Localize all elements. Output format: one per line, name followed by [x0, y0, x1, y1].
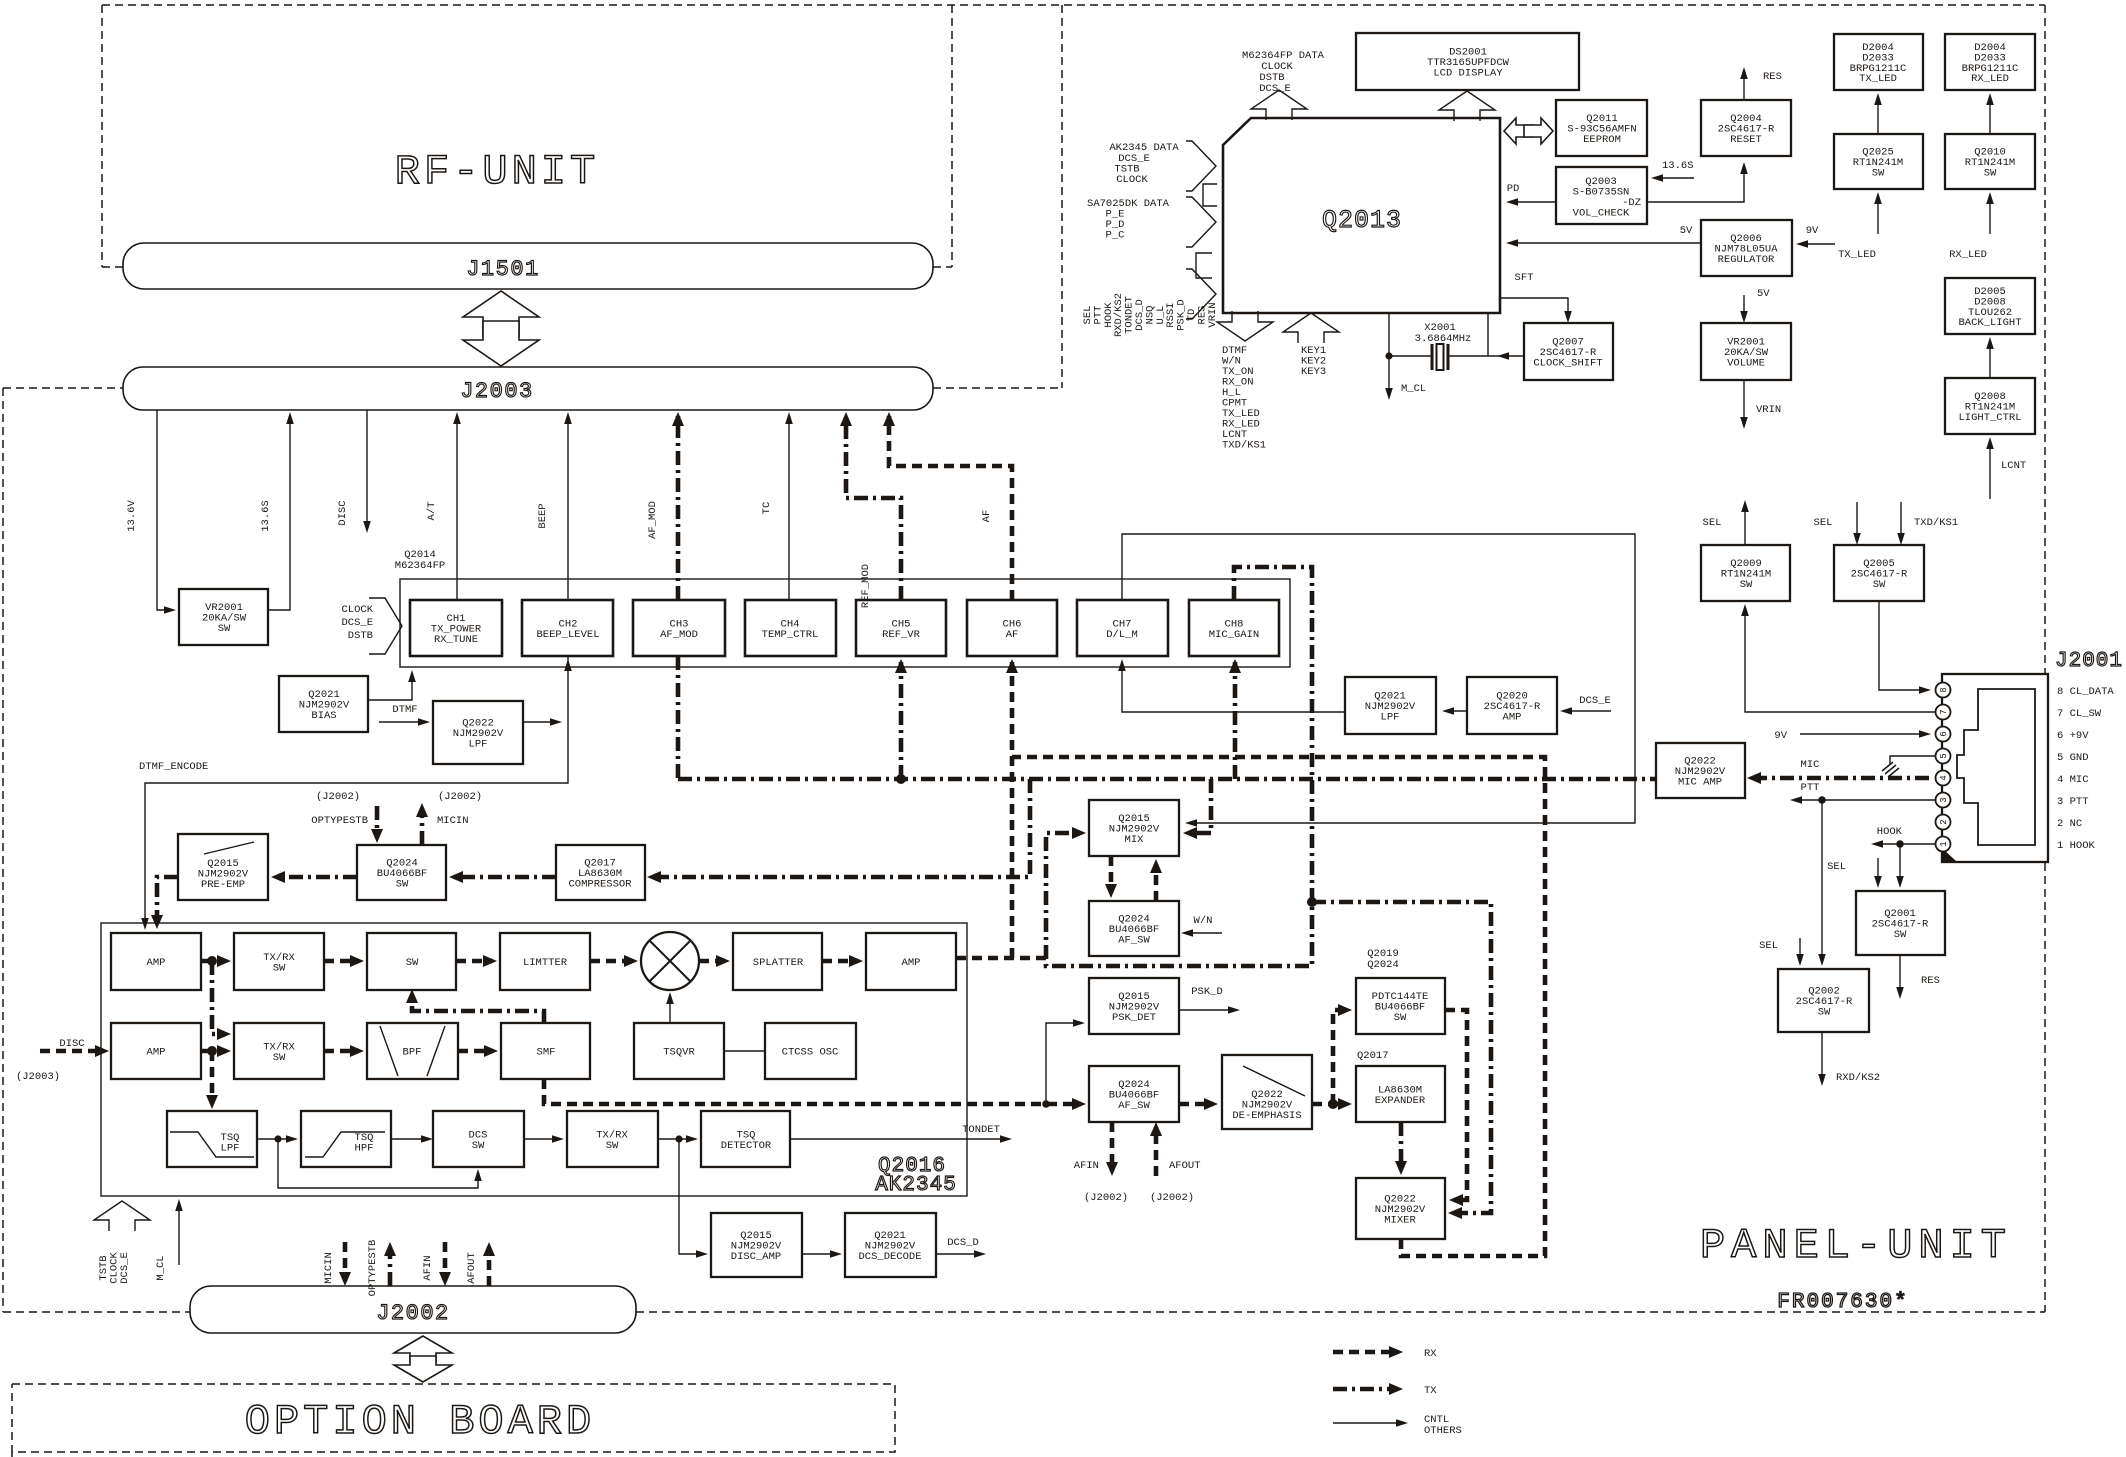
filter TSQ LPF [167, 1111, 257, 1167]
wire DEEMPH to LA8630 [1312, 1102, 1347, 1107]
svg-text:PRE-EMP: PRE-EMP [201, 879, 245, 891]
pin 1 J2001 [1936, 837, 1951, 852]
svg-text:SMF: SMF [537, 1047, 556, 1059]
filter SMF [501, 1023, 590, 1079]
svg-text:SEL: SEL [1759, 940, 1778, 952]
svg-text:SW: SW [1394, 1012, 1407, 1024]
svg-text:DCS_E: DCS_E [1579, 695, 1611, 707]
pin 6 J2001 [1936, 727, 1951, 742]
svg-text:Q2017: Q2017 [1357, 1050, 1389, 1062]
svg-text:DCS_D: DCS_D [947, 1237, 979, 1249]
chevron SA7025DK DATA [1186, 197, 1216, 247]
svg-text:SW: SW [472, 1140, 485, 1152]
svg-text:BEEP: BEEP [537, 503, 549, 528]
switch SW row1 [367, 933, 456, 990]
svg-text:7 CL_SW: 7 CL_SW [2057, 708, 2102, 720]
wire AFSW to MIX [1154, 864, 1159, 901]
wire BEEP [567, 415, 569, 600]
svg-text:5 GND: 5 GND [2057, 752, 2089, 764]
CPU Q2013 [1223, 118, 1500, 313]
svg-text:13.6S: 13.6S [260, 500, 272, 532]
svg-text:RX_TUNE: RX_TUNE [434, 634, 478, 646]
wire OPTYPESTB J2002 [388, 1247, 393, 1286]
switch Q2024 AF_SW 2 [1089, 1066, 1179, 1122]
double block arrow J1501-J2003 [463, 291, 539, 366]
svg-text:5V: 5V [1757, 288, 1770, 300]
wire PTT [1793, 799, 1935, 801]
svg-text:M62364FP: M62364FP [395, 560, 445, 572]
wire 9V to Q2006 [1799, 243, 1835, 245]
switch DCS SW [433, 1111, 524, 1167]
svg-text:TX: TX [1424, 1385, 1437, 1397]
svg-text:SEL: SEL [1827, 861, 1846, 873]
wire LPF out to CH2 node [523, 721, 559, 723]
svg-text:9V: 9V [1774, 730, 1787, 742]
svg-text:MICIN: MICIN [323, 1252, 335, 1284]
svg-text:RF-UNIT: RF-UNIT [395, 148, 599, 196]
svg-text:MIC: MIC [1801, 759, 1820, 771]
bracket pins 2 [1196, 253, 1212, 278]
svg-text:RX_LED: RX_LED [1949, 249, 1987, 261]
filter TSQ HPF [301, 1111, 391, 1167]
svg-text:BACK_LIGHT: BACK_LIGHT [1958, 317, 2021, 329]
RF-UNIT border bottom [102, 266, 952, 268]
svg-text:D/L_M: D/L_M [1106, 629, 1138, 641]
wire MIC from J2001 [1752, 776, 1929, 781]
wire 13.6S [268, 415, 290, 610]
wire SFT [1500, 298, 1568, 320]
EEPROM Q2011 [1556, 100, 1647, 156]
wire Q2008 to backlight [1989, 340, 1991, 378]
pin 3 J2001 [1936, 793, 1951, 808]
wire TXRX3-TSQDET [658, 1138, 695, 1140]
DA CH8 MIC_GAIN [1189, 600, 1279, 656]
svg-text:LCNT: LCNT [2001, 460, 2026, 472]
DA CH1 TX_POWER [410, 600, 502, 656]
wire TX branch row1 to row2 [212, 961, 226, 1034]
svg-text:J2003: J2003 [460, 379, 534, 404]
svg-text:TX_LED: TX_LED [1859, 73, 1897, 85]
svg-text:PSK_DET: PSK_DET [1112, 1012, 1156, 1024]
wire TXRX2-BPF [324, 1049, 359, 1054]
svg-text:VRIN: VRIN [1207, 302, 1219, 327]
wire SPLATTER-AMP [822, 959, 858, 964]
ground pin5 [1882, 756, 1935, 777]
decoder TSQVR [634, 1023, 724, 1079]
wire PSK_D [1179, 1009, 1237, 1011]
svg-text:6 +9V: 6 +9V [2057, 730, 2089, 742]
svg-text:HPF: HPF [355, 1143, 374, 1155]
svg-text:P_C: P_C [1106, 230, 1125, 242]
wire 13.6S to Q2003 [1654, 177, 1694, 179]
svg-text:FR007630*: FR007630* [1777, 1291, 1908, 1314]
amp AMP row1 out [866, 933, 956, 990]
svg-text:SW: SW [273, 1052, 286, 1064]
svg-text:RX: RX [1424, 1348, 1437, 1360]
op-amp Q2022 LPF dtmf [433, 701, 523, 764]
op-amp Q2015 PSK_DET [1089, 978, 1179, 1034]
wire RX_LED in [1989, 195, 1991, 234]
svg-text:(J2002): (J2002) [1150, 1192, 1194, 1204]
wire TSQVR-CTCSS [724, 1050, 765, 1052]
compressor Q2017 [556, 845, 645, 900]
svg-text:OPTION BOARD: OPTION BOARD [245, 1398, 595, 1446]
svg-text:EXPANDER: EXPANDER [1375, 1095, 1426, 1107]
svg-text:LIGHT_CTRL: LIGHT_CTRL [1958, 412, 2021, 424]
svg-text:AF_SW: AF_SW [1118, 935, 1150, 947]
wire DTMF [379, 721, 427, 723]
wire A/T [456, 415, 458, 600]
transistor Q2009 SW [1701, 545, 1790, 601]
svg-text:DSTB: DSTB [348, 630, 373, 642]
svg-text:AF: AF [1006, 629, 1019, 641]
svg-text:DISC_AMP: DISC_AMP [731, 1251, 781, 1263]
connector J2001 [1942, 650, 2123, 862]
wire AMP up to CH6 [1010, 662, 1015, 958]
svg-text:DCS_E: DCS_E [341, 617, 373, 629]
wire TXD/KS1 q2005 [1900, 502, 1902, 542]
svg-text:COMPRESSOR: COMPRESSOR [568, 879, 632, 891]
double block arrow J2002-OPTION [394, 1336, 452, 1382]
chevron AK2345 DATA [1186, 141, 1216, 191]
transistor Q2005 SW [1834, 545, 1924, 601]
pin 4 J2001 [1936, 771, 1951, 786]
svg-text:LPF: LPF [1381, 712, 1400, 724]
svg-text:TC: TC [761, 502, 773, 515]
wire TX to MIX right [1188, 779, 1211, 833]
wire TSQVR to mixer [669, 995, 671, 1023]
wire BIAS to Q2014 [368, 673, 412, 700]
svg-text:W/N: W/N [1194, 915, 1213, 927]
DA CH4 TEMP_CTRL [745, 600, 836, 656]
svg-text:AMP: AMP [147, 1047, 166, 1059]
block arrow KEY group [1283, 313, 1339, 343]
transistor Q2001 SW [1856, 891, 1945, 955]
svg-text:PSK_D: PSK_D [1191, 986, 1223, 998]
svg-text:AF_SW: AF_SW [1118, 1100, 1150, 1112]
amp AMP row2 [111, 1023, 201, 1079]
DA CH5 REF_VR [856, 600, 946, 656]
wire AFOUT J2002 [487, 1247, 492, 1286]
wire SMF to AFSW2 [544, 1079, 1081, 1104]
RF-UNIT border left [101, 5, 103, 267]
wire SMF up to SW [412, 993, 544, 1023]
svg-text:4: 4 [1939, 775, 1949, 780]
wire DISC into AMP2 [40, 1049, 104, 1054]
svg-text:CLOCK_SHIFT: CLOCK_SHIFT [1533, 358, 1602, 370]
svg-text:M_CL: M_CL [155, 1255, 167, 1280]
svg-text:(J2002): (J2002) [316, 791, 360, 803]
svg-text:6: 6 [1939, 731, 1949, 736]
wire AFOUT [1154, 1127, 1159, 1176]
wire TXRX1-SW [324, 959, 359, 964]
svg-text:DCS_E: DCS_E [1259, 83, 1291, 95]
op-amp Q2015 DISC_AMP [711, 1213, 802, 1277]
wire SEL q2009 [1744, 503, 1746, 545]
wire 5V to Q2013 [1509, 242, 1701, 244]
expander LA8630M [1356, 1066, 1445, 1122]
PANEL-UNIT border right [2044, 5, 2046, 1312]
block arrow to M62364FP DATA [1251, 90, 1307, 120]
transistor Q2010 SW [1945, 134, 2035, 189]
svg-text:S-B0735SN: S-B0735SN [1573, 187, 1630, 199]
svg-text:2 NC: 2 NC [2057, 818, 2082, 830]
svg-text:5: 5 [1939, 753, 1949, 758]
wire MIC_GAIN loop [1046, 567, 1312, 966]
wire MICIN J2002 [343, 1242, 348, 1281]
svg-text:VOLUME: VOLUME [1727, 358, 1765, 370]
svg-text:RX_LED: RX_LED [1971, 73, 2009, 85]
wire AFSW2 to DEEMPH [1179, 1102, 1213, 1107]
wire Q2021LPF to CH7 [1122, 662, 1345, 712]
op-amp Q2015 PRE-EMP [178, 834, 268, 900]
svg-text:DCS_DECODE: DCS_DECODE [858, 1251, 921, 1263]
transistor Q2007 CLOCK_SHIFT [1524, 323, 1613, 380]
amp Q2020 [1467, 677, 1557, 734]
wire SEL q2005 [1856, 502, 1858, 542]
legend RX line [1333, 1350, 1397, 1355]
wire to DCS SW bottom [278, 1139, 478, 1188]
wire TC [788, 415, 790, 600]
transistor Q2004 RESET [1701, 100, 1791, 156]
svg-text:SW: SW [1872, 168, 1885, 180]
svg-text:M_CL: M_CL [1401, 383, 1426, 395]
wire TONDET [790, 1138, 1009, 1140]
wire PRE-EMP chain COMP-Q2024 [454, 875, 556, 880]
wire Q2003 to Q2004 [1647, 165, 1744, 202]
svg-text:AFOUT: AFOUT [1169, 1160, 1201, 1172]
DA CH6 AF [967, 600, 1057, 656]
svg-text:AMP: AMP [902, 957, 921, 969]
switch Q2024 AF_SW 1 [1089, 901, 1179, 956]
wire W/N [1184, 932, 1222, 934]
IC Q2003 VOL_CHECK [1556, 167, 1647, 224]
wire VRIN [1743, 380, 1745, 426]
svg-text:RESET: RESET [1730, 134, 1762, 146]
wire RX return long [1012, 757, 1545, 1256]
svg-text:CLOCK: CLOCK [341, 604, 373, 616]
svg-text:SW: SW [1894, 929, 1907, 941]
svg-text:RES: RES [1921, 975, 1940, 987]
block arrow CLOCK-DCS_E-DSTB [369, 598, 402, 654]
switch TX/RX SW row3 [567, 1111, 658, 1167]
oscillator CTCSS OSC [765, 1023, 856, 1079]
op-amp Q2021 DCS_DECODE [845, 1213, 936, 1277]
wire Q2010 to RX LED [1989, 96, 1991, 134]
wire PD [1509, 201, 1556, 203]
wire Q2020-Q2021 [1445, 710, 1467, 712]
potentiometer VR2001 VOLUME [1701, 323, 1791, 380]
svg-text:LIMTTER: LIMTTER [523, 957, 568, 969]
wire Q2001 RES [1899, 955, 1901, 996]
PANEL-UNIT border bottom [3, 1311, 2045, 1313]
svg-text:CTCSS OSC: CTCSS OSC [782, 1047, 839, 1059]
svg-text:SW: SW [1818, 1007, 1831, 1019]
chevron status signals [1186, 269, 1216, 319]
pin 2 J2001 [1936, 815, 1951, 830]
wire LIMTTER-mixer [590, 959, 633, 964]
svg-text:PD: PD [1507, 183, 1520, 195]
op-amp Q2021 BIAS [279, 676, 368, 732]
LED D2004 TX_LED [1834, 34, 1923, 90]
svg-text:TX_LED: TX_LED [1838, 249, 1876, 261]
svg-text:MIXER: MIXER [1384, 1215, 1416, 1227]
splatter SPLATTER [733, 933, 822, 990]
regulator Q2006 [1701, 220, 1792, 276]
svg-text:TXD/KS1: TXD/KS1 [1222, 440, 1266, 452]
svg-text:OPTYPESTB: OPTYPESTB [367, 1240, 379, 1297]
double block arrow Q2013-Q2011 [1504, 118, 1553, 144]
block arrow DTMF group [1217, 311, 1273, 341]
wire SEL to Q2002 [1799, 938, 1801, 963]
svg-text:DISC: DISC [59, 1038, 84, 1050]
wire pin7 to Q2009 [1745, 607, 1935, 712]
svg-text:SPLATTER: SPLATTER [753, 957, 804, 969]
wire TX to MIXER [1312, 902, 1491, 1213]
svg-text:A/T: A/T [426, 502, 438, 521]
wire AFIN [1110, 1122, 1115, 1171]
wire BPF-SMF [458, 1049, 493, 1054]
svg-text:OPTYPESTB: OPTYPESTB [311, 815, 368, 827]
op-amp Q2021 LPF [1345, 677, 1436, 734]
svg-text:AK2345: AK2345 [875, 1174, 957, 1197]
transistor Q2002 SW [1778, 969, 1869, 1032]
connector J1501 [123, 243, 933, 289]
wire AMP2 down to TSQ LPF [210, 1051, 215, 1104]
pin 5 J2001 [1936, 749, 1951, 764]
border top dashed [102, 4, 2045, 6]
block arrow to DS2001 [1439, 91, 1495, 121]
connector J2002 [190, 1286, 636, 1333]
wire AFIN J2002 [443, 1242, 448, 1281]
pin 7 J2001 [1936, 705, 1951, 720]
wire TX_LED in [1877, 195, 1879, 234]
svg-text:13.6S: 13.6S [1662, 160, 1694, 172]
wire mixer-SPLATTER [699, 959, 725, 964]
svg-text:RES: RES [1763, 71, 1782, 83]
LED D2005 BACK_LIGHT [1945, 278, 2035, 334]
PANEL-UNIT border left [2, 388, 4, 1312]
wire DTMF_ENCODE [145, 656, 568, 927]
svg-text:PANEL-UNIT: PANEL-UNIT [1700, 1222, 2012, 1270]
wire AMP1 to TXRX1 [201, 959, 226, 964]
svg-text:AFOUT: AFOUT [466, 1252, 478, 1284]
detector TSQ DETECTOR [701, 1111, 790, 1167]
svg-text:DTMF: DTMF [392, 704, 417, 716]
svg-text:(J2002): (J2002) [1084, 1192, 1128, 1204]
svg-text:AF: AF [981, 510, 993, 523]
svg-text:(J2002): (J2002) [438, 791, 482, 803]
pin 8 J2001 [1936, 683, 1951, 698]
svg-text:SW: SW [1740, 579, 1753, 591]
svg-text:4 MIC: 4 MIC [2057, 774, 2089, 786]
amp AMP row1 [111, 933, 201, 990]
svg-text:TSQVR: TSQVR [663, 1047, 695, 1059]
connector J2003 [123, 367, 933, 410]
svg-text:SW: SW [606, 1140, 619, 1152]
svg-text:(J2003): (J2003) [16, 1071, 60, 1083]
wire Q2025 to TX LED [1877, 96, 1879, 134]
svg-text:AMP: AMP [147, 957, 166, 969]
wire MIX to AFSW [1109, 856, 1114, 893]
svg-text:SA7025DK DATA: SA7025DK DATA [1087, 198, 1170, 210]
svg-text:DISC: DISC [337, 500, 349, 525]
svg-text:BPF: BPF [403, 1047, 422, 1059]
wire DCS_D [936, 1253, 983, 1255]
svg-text:J2002: J2002 [376, 1301, 450, 1326]
svg-text:CLOCK: CLOCK [1116, 174, 1148, 186]
svg-text:J2001: J2001 [2055, 650, 2123, 673]
svg-text:3 PTT: 3 PTT [2057, 796, 2089, 808]
svg-text:SW: SW [273, 962, 286, 974]
legend TX line [1333, 1387, 1397, 1392]
svg-text:OTHERS: OTHERS [1424, 1425, 1462, 1437]
svg-text:PTT: PTT [1801, 782, 1820, 794]
wire MICIN top [420, 808, 425, 845]
wire HPF-DCS [391, 1138, 430, 1140]
wire RXD/KS2 [1821, 1032, 1823, 1083]
wire 5V to VR2001 [1743, 295, 1745, 320]
RF-UNIT border right [951, 5, 953, 267]
svg-text:SEL: SEL [1814, 517, 1833, 529]
svg-text:VRIN: VRIN [1756, 404, 1781, 416]
junction REF_MOD [896, 774, 906, 784]
bracket pins 1 [1203, 184, 1217, 206]
svg-text:1 HOOK: 1 HOOK [2057, 840, 2096, 852]
wire TX to COMPRESSOR [652, 779, 1030, 877]
svg-text:LCD DISPLAY: LCD DISPLAY [1433, 68, 1503, 80]
block arrow TSTB CLOCK DCS_E [94, 1201, 150, 1231]
svg-text:AF_MOD: AF_MOD [660, 629, 698, 641]
svg-text:8: 8 [1939, 687, 1949, 692]
svg-text:LPF: LPF [469, 739, 488, 751]
DA CH2 BEEP_LEVEL [522, 600, 613, 656]
switch TX/RX SW row2 [234, 1023, 324, 1079]
svg-text:SW: SW [406, 957, 419, 969]
wire OPTYPESTB [375, 806, 380, 838]
svg-text:TONDET: TONDET [962, 1124, 1000, 1136]
svg-text:LPF: LPF [221, 1143, 240, 1155]
op-amp Q2022 MIC AMP [1656, 743, 1745, 798]
svg-text:SW: SW [1873, 579, 1886, 591]
wire to DISC_AMP [679, 1139, 705, 1254]
wire RES top [1743, 70, 1745, 100]
switch Q2024 SW [357, 845, 446, 900]
svg-text:9V: 9V [1806, 225, 1819, 237]
switch TX/RX SW row1 [234, 933, 324, 990]
CPU region border left [1061, 5, 1063, 388]
wire AMP out [956, 958, 1046, 966]
svg-text:Q2024: Q2024 [1367, 959, 1399, 971]
svg-text:MIC AMP: MIC AMP [1678, 777, 1722, 789]
wire PTT to Q2002 [1821, 800, 1823, 963]
transistor Q2008 LIGHT_CTRL [1945, 378, 2035, 434]
svg-text:SW: SW [218, 623, 231, 635]
mixer Q2022 MIXER [1356, 1178, 1445, 1239]
svg-text:1: 1 [1939, 841, 1949, 846]
wire LPF-HPF [257, 1138, 295, 1140]
op-amp Q2022 DE-EMPHASIS [1222, 1055, 1312, 1129]
switch PDTC144TE [1356, 978, 1445, 1034]
wire Q2005 to pin8 [1879, 601, 1927, 690]
svg-text:BIAS: BIAS [311, 710, 336, 722]
wire PDTC out to MIXER [1445, 1010, 1467, 1200]
wire TX backbone [678, 777, 1656, 782]
wire SEL to Q2001 [1877, 858, 1879, 885]
wire crystal to Q2007 [1449, 313, 1524, 356]
limiter LIMTTER [500, 933, 590, 990]
legend CNTL line [1333, 1422, 1405, 1424]
